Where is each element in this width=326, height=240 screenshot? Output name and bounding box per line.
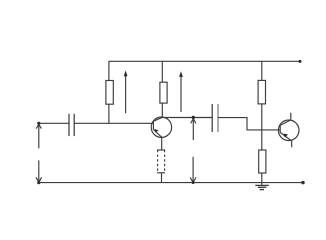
resistor R3 [258, 80, 265, 104]
node input terminal dot [37, 122, 40, 125]
wire C1 to Q1 base [74, 122, 153, 124]
capacitor C2 [211, 104, 213, 132]
wire bottom rail [39, 182, 303, 184]
wire top rail to R2 [161, 61, 163, 82]
arrow current up beside R1 [124, 71, 128, 114]
resistor R1 [106, 81, 113, 105]
resistor R2 [160, 82, 167, 103]
arrow output voltage down [190, 157, 196, 184]
wire Q2 collector stub [290, 113, 292, 120]
wire R3 to R4 divider [261, 104, 263, 150]
ground [255, 185, 268, 189]
capacitor C1 [68, 114, 70, 136]
wire C2 to step corner [218, 118, 280, 130]
arrow output voltage up [191, 119, 196, 141]
wire top supply rail [109, 61, 300, 80]
arrow current up beside R2 [179, 71, 183, 112]
node bottom-left rail dot [37, 181, 40, 184]
wire Q1 emitter down [161, 138, 163, 150]
wire Re to bottom rail [161, 173, 163, 183]
transistor Q2 [278, 120, 299, 141]
arrow input voltage down [36, 160, 42, 182]
wire top rail to R3 [261, 61, 263, 80]
node top-right supply terminal dot [299, 60, 302, 63]
wire R4 to ground [261, 173, 263, 185]
resistor R4 [259, 150, 266, 173]
resistor Re dashed [157, 150, 165, 173]
wire input node to C1 [39, 122, 69, 124]
node bottom-right rail terminal dot [301, 181, 304, 184]
transistor Q1 [151, 117, 171, 137]
arrow input voltage up [36, 124, 41, 148]
wire R2 bottom to Q1 collector [161, 103, 163, 117]
node output junction dot [192, 116, 195, 119]
wire Q1 collector output line [162, 117, 212, 119]
wire R1 bottom to base line [108, 104, 110, 123]
wire Q2 emitter stub [291, 141, 293, 147]
